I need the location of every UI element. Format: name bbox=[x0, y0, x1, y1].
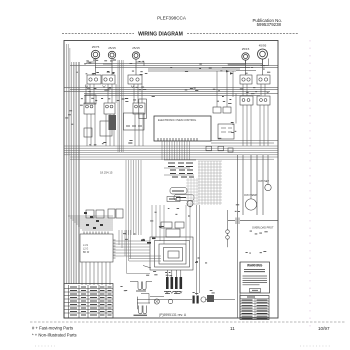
svg-text:25/75: 25/75 bbox=[92, 45, 100, 49]
svg-text:# + Fast-moving Parts: # + Fast-moving Parts bbox=[32, 326, 73, 331]
svg-text:25/15: 25/15 bbox=[132, 46, 140, 50]
svg-text:45/95: 45/95 bbox=[259, 44, 267, 48]
svg-text:WARNING: WARNING bbox=[247, 264, 263, 268]
svg-text:18.254.15: 18.254.15 bbox=[100, 171, 113, 175]
svg-text:PLEF398CCA: PLEF398CCA bbox=[157, 16, 187, 21]
svg-text:11: 11 bbox=[230, 326, 235, 331]
svg-text:ELECTRONIC OVEN CONTROL: ELECTRONIC OVEN CONTROL bbox=[158, 118, 197, 122]
svg-text:WIRING DIAGRAM: WIRING DIAGRAM bbox=[138, 31, 183, 37]
svg-text:10/97: 10/97 bbox=[318, 326, 330, 331]
svg-text:BK W: BK W bbox=[83, 251, 90, 254]
svg-text:(P)5995131 rev. A: (P)5995131 rev. A bbox=[159, 313, 187, 317]
svg-text:25/15: 25/15 bbox=[108, 46, 116, 50]
svg-text:OVN TEMP: OVN TEMP bbox=[244, 194, 257, 197]
svg-text:5995379238: 5995379238 bbox=[257, 22, 282, 27]
svg-text:25/15: 25/15 bbox=[242, 47, 250, 51]
svg-text:* + Non-Illustrated Parts: * + Non-Illustrated Parts bbox=[32, 333, 77, 338]
svg-text:OVERLOAD PROT: OVERLOAD PROT bbox=[252, 227, 274, 230]
